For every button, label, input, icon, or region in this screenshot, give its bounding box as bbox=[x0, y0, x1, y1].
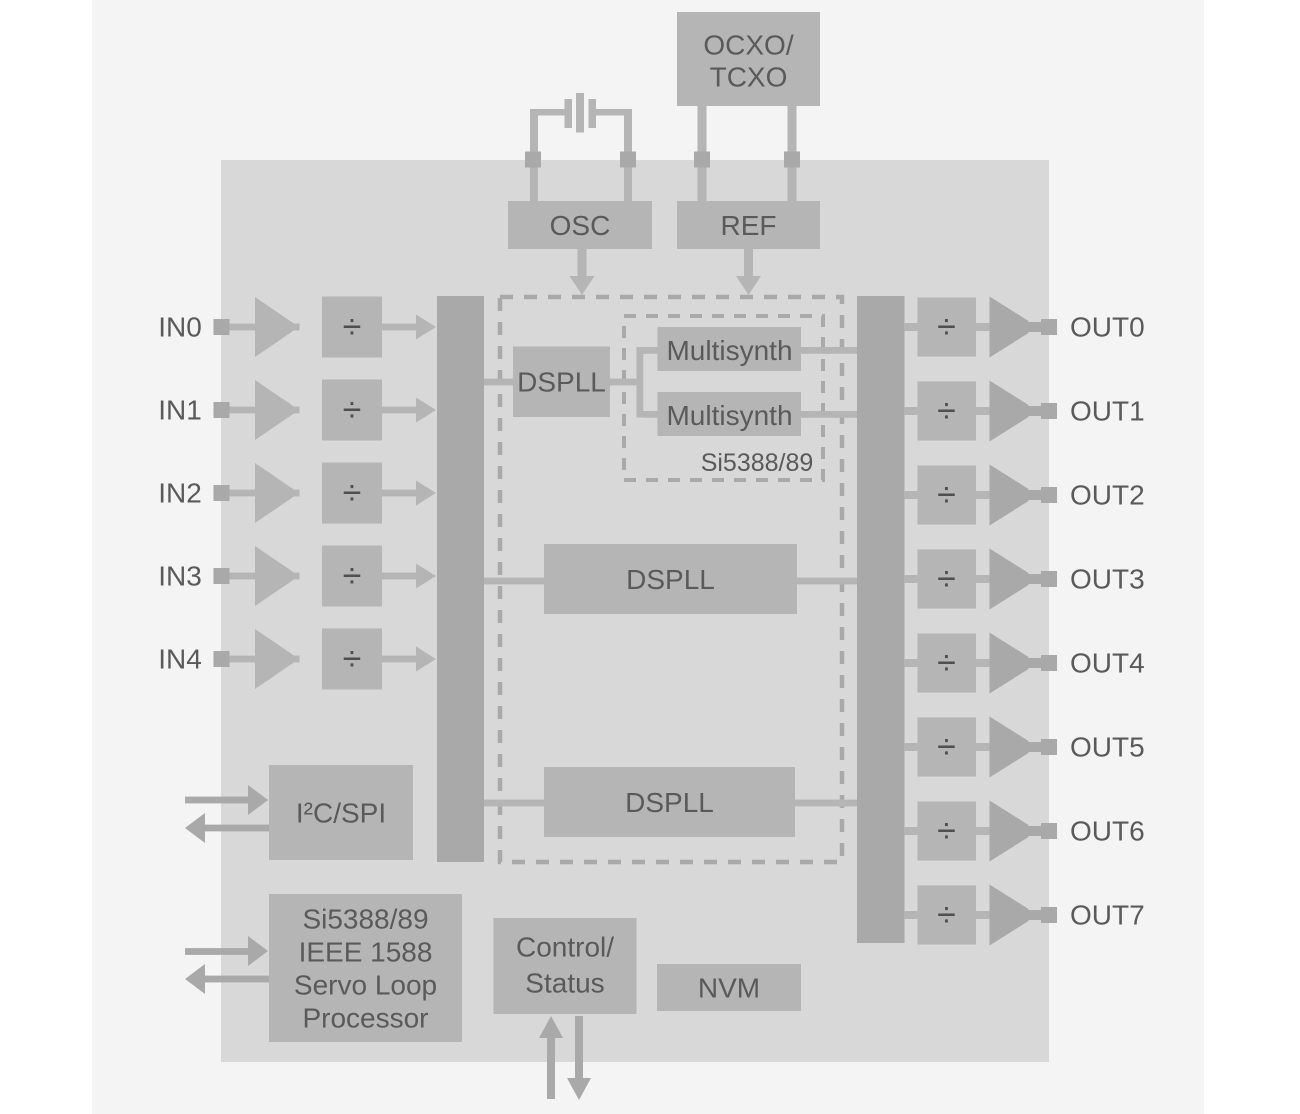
wire crossbar to divider OUT7 bbox=[904, 911, 918, 919]
arrow into I2C/SPI bbox=[185, 785, 268, 815]
arrow IN4 to crossbar bbox=[382, 647, 436, 672]
outer dashed DSPLL region bbox=[500, 297, 842, 862]
arrow IN2 to crossbar bbox=[382, 481, 436, 506]
arrow OSC to DSPLL area bbox=[570, 249, 595, 295]
OSC box bbox=[508, 201, 652, 249]
DSPLL A box bbox=[513, 347, 610, 418]
arrow down from Control/Status bbox=[567, 1016, 591, 1100]
input buffer amp IN2 bbox=[255, 463, 299, 523]
wire DSPLL B to output crossbar bbox=[797, 578, 857, 585]
svg-text:Status: Status bbox=[525, 968, 604, 999]
svg-text:÷: ÷ bbox=[343, 308, 362, 346]
arrow IN1 to crossbar bbox=[382, 398, 436, 423]
pin IN3 bbox=[214, 568, 230, 584]
wire crystal right horizontal bbox=[596, 109, 632, 116]
pin OCXO left bbox=[694, 152, 710, 168]
output driver OUT0 bbox=[990, 297, 1029, 358]
wire Multisynth 2 to output crossbar bbox=[801, 411, 857, 418]
wire driver to pin OUT7 bbox=[1028, 910, 1041, 920]
input buffer amp IN0 bbox=[255, 297, 299, 357]
wire fork vertical bbox=[637, 347, 644, 418]
wire divider to driver OUT0 bbox=[976, 323, 990, 331]
wire IN1 to buffer bbox=[230, 407, 300, 414]
svg-text:IEEE 1588: IEEE 1588 bbox=[299, 937, 433, 968]
wire crossbar to divider OUT4 bbox=[904, 659, 918, 667]
pin OUT3 bbox=[1041, 571, 1057, 587]
pin IN2 bbox=[214, 485, 230, 501]
divider IN4 bbox=[322, 629, 382, 690]
wire divider to driver OUT7 bbox=[976, 911, 990, 919]
divider IN0 bbox=[322, 297, 382, 358]
arrow IN3 to crossbar bbox=[382, 564, 436, 589]
wire divider to driver OUT3 bbox=[976, 575, 990, 583]
wire IN0 to buffer bbox=[230, 324, 300, 331]
pin OUT2 bbox=[1041, 487, 1057, 503]
divider OUT2 bbox=[918, 466, 977, 525]
wire divider to driver OUT6 bbox=[976, 827, 990, 835]
wire IN4 to buffer bbox=[230, 656, 300, 663]
output driver OUT6 bbox=[990, 801, 1029, 862]
input buffer amp IN3 bbox=[255, 546, 299, 606]
pin OSC right bbox=[620, 152, 636, 168]
arrow out of servo processor bbox=[185, 964, 269, 994]
wire driver to pin OUT3 bbox=[1028, 574, 1041, 584]
wire crossbar to divider OUT1 bbox=[904, 407, 918, 415]
pin OUT7 bbox=[1041, 907, 1057, 923]
svg-text:OUT5: OUT5 bbox=[1070, 732, 1145, 763]
output driver OUT1 bbox=[990, 381, 1029, 442]
svg-text:Processor: Processor bbox=[302, 1003, 428, 1034]
svg-text:Multisynth: Multisynth bbox=[666, 400, 792, 431]
output driver OUT3 bbox=[990, 549, 1029, 610]
svg-text:OUT2: OUT2 bbox=[1070, 480, 1145, 511]
wire Multisynth 1 to output crossbar bbox=[801, 347, 857, 354]
wire DSPLL A to fork bbox=[610, 379, 640, 386]
NVM box bbox=[657, 964, 801, 1011]
wire driver to pin OUT2 bbox=[1028, 490, 1041, 500]
output driver OUT4 bbox=[990, 633, 1029, 694]
svg-text:÷: ÷ bbox=[937, 476, 956, 514]
svg-text:÷: ÷ bbox=[937, 812, 956, 850]
output crossbar switch bbox=[857, 296, 905, 943]
wire crystal right vertical bbox=[624, 109, 632, 202]
crystal Y1 left plate bbox=[565, 99, 573, 128]
pin IN0 bbox=[214, 319, 230, 335]
svg-text:OUT0: OUT0 bbox=[1070, 312, 1145, 343]
svg-text:÷: ÷ bbox=[937, 392, 956, 430]
wire divider to driver OUT5 bbox=[976, 743, 990, 751]
svg-text:OUT4: OUT4 bbox=[1070, 648, 1145, 679]
svg-text:DSPLL: DSPLL bbox=[625, 787, 714, 818]
pin IN1 bbox=[214, 402, 230, 418]
input buffer amp IN1 bbox=[255, 380, 299, 440]
wire crossbar to DSPLL B bbox=[484, 578, 544, 585]
svg-text:OCXO/: OCXO/ bbox=[703, 30, 793, 61]
pin OUT6 bbox=[1041, 823, 1057, 839]
Multisynth 2 box bbox=[658, 392, 802, 436]
DSPLL B box bbox=[544, 544, 797, 614]
svg-text:÷: ÷ bbox=[343, 474, 362, 512]
wire crossbar to divider OUT5 bbox=[904, 743, 918, 751]
arrow up into Control/Status bbox=[539, 1016, 563, 1099]
wire crossbar to DSPLL C bbox=[484, 800, 544, 807]
svg-text:IN2: IN2 bbox=[158, 478, 202, 509]
OCXO/TCXO box bbox=[677, 12, 820, 106]
svg-text:I²C/SPI: I²C/SPI bbox=[296, 798, 386, 829]
output driver OUT5 bbox=[990, 717, 1029, 778]
input crossbar switch bbox=[437, 296, 484, 862]
pin IN4 bbox=[214, 651, 230, 667]
svg-text:÷: ÷ bbox=[343, 391, 362, 429]
divider OUT1 bbox=[918, 382, 977, 441]
arrow IN0 to crossbar bbox=[382, 315, 436, 340]
input buffer amp IN4 bbox=[255, 629, 299, 689]
wire OCXO left lead bbox=[698, 106, 707, 202]
svg-text:Si5388/89: Si5388/89 bbox=[302, 904, 428, 935]
pin OUT1 bbox=[1041, 403, 1057, 419]
divider IN3 bbox=[322, 546, 382, 607]
wire driver to pin OUT5 bbox=[1028, 742, 1041, 752]
svg-text:Si5388/89: Si5388/89 bbox=[701, 449, 814, 477]
divider OUT4 bbox=[918, 634, 977, 693]
svg-text:÷: ÷ bbox=[937, 644, 956, 682]
svg-text:÷: ÷ bbox=[937, 896, 956, 934]
inner dashed Si5388/89 region bbox=[624, 316, 823, 480]
I2C/SPI box bbox=[269, 765, 413, 860]
wire crossbar to divider OUT3 bbox=[904, 575, 918, 583]
crystal Y1 body bbox=[576, 93, 584, 133]
wire divider to driver OUT2 bbox=[976, 491, 990, 499]
wire divider to driver OUT1 bbox=[976, 407, 990, 415]
pin OUT5 bbox=[1041, 739, 1057, 755]
arrow REF to DSPLL area bbox=[736, 249, 761, 295]
wire crossbar to divider OUT2 bbox=[904, 491, 918, 499]
svg-text:OUT7: OUT7 bbox=[1070, 900, 1145, 931]
svg-text:IN1: IN1 bbox=[158, 395, 202, 426]
svg-text:DSPLL: DSPLL bbox=[626, 564, 715, 595]
wire driver to pin OUT0 bbox=[1028, 322, 1041, 332]
wire driver to pin OUT1 bbox=[1028, 406, 1041, 416]
svg-text:OUT1: OUT1 bbox=[1070, 396, 1145, 427]
chip body bbox=[221, 160, 1049, 1062]
DSPLL C box bbox=[544, 767, 795, 837]
wire crystal left horizontal bbox=[531, 109, 565, 116]
wire crossbar to divider OUT0 bbox=[904, 323, 918, 331]
svg-text:Servo Loop: Servo Loop bbox=[294, 970, 437, 1001]
arrow out of I2C/SPI bbox=[185, 813, 269, 843]
divider OUT7 bbox=[918, 886, 977, 945]
wire DSPLL C to output crossbar bbox=[795, 800, 857, 807]
svg-text:IN4: IN4 bbox=[158, 644, 202, 675]
output driver OUT2 bbox=[990, 465, 1029, 526]
svg-text:NVM: NVM bbox=[698, 973, 760, 1004]
svg-text:OUT3: OUT3 bbox=[1070, 564, 1145, 595]
crystal Y1 right plate bbox=[589, 99, 597, 128]
svg-text:÷: ÷ bbox=[937, 308, 956, 346]
svg-text:÷: ÷ bbox=[343, 557, 362, 595]
svg-text:÷: ÷ bbox=[343, 640, 362, 678]
svg-text:IN3: IN3 bbox=[158, 561, 202, 592]
divider OUT5 bbox=[918, 718, 977, 777]
Control/Status box bbox=[494, 918, 637, 1014]
svg-text:Multisynth: Multisynth bbox=[666, 335, 792, 366]
svg-text:TCXO: TCXO bbox=[710, 62, 788, 93]
REF box bbox=[677, 201, 820, 249]
wire driver to pin OUT6 bbox=[1028, 826, 1041, 836]
svg-text:Control/: Control/ bbox=[516, 932, 614, 963]
wire IN3 to buffer bbox=[230, 573, 300, 580]
wire crossbar to divider OUT6 bbox=[904, 827, 918, 835]
Multisynth 1 box bbox=[658, 327, 802, 371]
wire crystal left vertical bbox=[530, 109, 538, 202]
wire fork to Multisynth 2 bbox=[643, 411, 658, 418]
wire fork to Multisynth 1 bbox=[643, 347, 658, 354]
svg-text:OSC: OSC bbox=[550, 210, 611, 241]
wire OCXO right lead bbox=[788, 106, 797, 202]
wire IN2 to buffer bbox=[230, 490, 300, 497]
pin OUT4 bbox=[1041, 655, 1057, 671]
divider IN1 bbox=[322, 380, 382, 441]
svg-text:IN0: IN0 bbox=[158, 312, 202, 343]
svg-text:÷: ÷ bbox=[937, 560, 956, 598]
svg-text:OUT6: OUT6 bbox=[1070, 816, 1145, 847]
output driver OUT7 bbox=[990, 885, 1029, 946]
wire divider to driver OUT4 bbox=[976, 659, 990, 667]
divider OUT0 bbox=[918, 298, 977, 357]
divider IN2 bbox=[322, 463, 382, 524]
pin OSC left bbox=[525, 152, 541, 168]
wire crossbar to DSPLL A bbox=[484, 379, 513, 386]
Si5388/89 IEEE 1588 Servo Loop Processor box bbox=[269, 894, 462, 1042]
wire driver to pin OUT4 bbox=[1028, 658, 1041, 668]
svg-text:REF: REF bbox=[721, 210, 777, 241]
divider OUT6 bbox=[918, 802, 977, 861]
pin OUT0 bbox=[1041, 319, 1057, 335]
divider OUT3 bbox=[918, 550, 977, 609]
arrow into servo processor bbox=[185, 936, 268, 966]
pin OCXO right bbox=[784, 152, 800, 168]
svg-text:DSPLL: DSPLL bbox=[517, 367, 606, 398]
svg-text:÷: ÷ bbox=[937, 728, 956, 766]
